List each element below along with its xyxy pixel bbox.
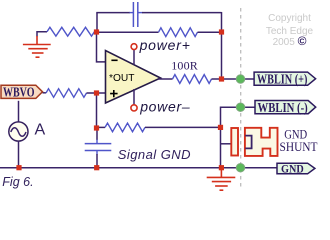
wire: AC source to rail — [18, 141, 20, 168]
wire: node E down to ground rail — [220, 127, 222, 167]
svg-text:A: A — [35, 122, 46, 139]
wire: ground leg to R-gnd — [37, 31, 47, 37]
svg-text:Signal GND: Signal GND — [118, 147, 191, 162]
svg-text:100R: 100R — [171, 58, 198, 72]
resistor R-gnd zigzag (inverting input to ground) — [47, 27, 95, 36]
wire: node A to feedback resistor — [97, 31, 159, 33]
wire: feedback cap top horizontal left — [96, 12, 130, 14]
wire: feedback cap branch right vertical — [221, 12, 223, 32]
op-amp plus label — [110, 90, 118, 97]
wire: R-pwr to node E — [145, 126, 221, 128]
wire: cap C2 top lead — [96, 128, 98, 140]
op-amp minus label — [111, 59, 117, 61]
wire: op-amp output to 100R — [158, 78, 173, 80]
wire: R-in to non-inverting input — [87, 92, 107, 94]
junction node D (96.5,128) — [94, 125, 99, 130]
resistor R-feedback zigzag — [159, 28, 198, 37]
wire: feedback cap top horizontal right — [142, 12, 222, 14]
capacitor C2 plate top — [85, 143, 112, 145]
capacitor C2 plate bottom — [85, 150, 112, 152]
WBLIN (+) tag — [254, 72, 316, 85]
svg-text:WBVO: WBVO — [3, 85, 35, 100]
svg-text:WBLIN (+): WBLIN (+) — [257, 72, 308, 87]
WBLIN (-) tag — [255, 101, 316, 114]
GND tag — [277, 163, 315, 174]
AC source sine wave — [11, 128, 26, 137]
wire: feedback resistor to node B — [198, 31, 222, 33]
svg-text:power+: power+ — [139, 37, 191, 53]
junction rail-C2 (96.7,167.7) — [94, 165, 99, 170]
junction rail-gnd (221.4,167.7) — [219, 165, 224, 170]
ground symbol bottom-right — [207, 170, 236, 190]
wire: output node to WBLIN+ tag — [222, 78, 256, 80]
junction node E (220.5,127.4) — [218, 125, 223, 130]
svg-text:GND: GND — [281, 163, 304, 175]
svg-text:Fig 6.: Fig 6. — [2, 175, 33, 189]
shunt receptacle bracket — [245, 136, 251, 149]
svg-text:power–: power– — [139, 99, 190, 115]
connector dot GND — [236, 163, 245, 172]
wire: WBVO tag stub — [43, 92, 47, 94]
svg-text:WBLIN (-): WBLIN (-) — [258, 101, 308, 116]
wire: signal ground rail — [0, 167, 277, 169]
svg-text:*OUT: *OUT — [109, 72, 135, 84]
wire: node C down to node D — [96, 93, 98, 128]
connector dot WBLIN- — [236, 103, 245, 112]
junction node C (96.5,93) — [94, 90, 99, 95]
wire: cap C1 blue lead right — [138, 12, 143, 14]
shunt left pin P1 — [231, 128, 238, 156]
capacitor C1 plate left — [132, 2, 134, 27]
resistor R-pwr zigzag — [105, 123, 145, 132]
power+ terminal circle — [131, 44, 137, 50]
svg-text:SHUNT: SHUNT — [280, 139, 318, 154]
wire: R-gnd to node A — [95, 31, 97, 33]
junction node B (221.5,32) — [219, 29, 224, 34]
resistor 100R zigzag — [173, 75, 212, 84]
AC source V1 circle — [9, 122, 28, 141]
svg-text:Copyright: Copyright — [268, 13, 311, 24]
wire: node A down to inverting input — [97, 32, 107, 62]
WBVO tag — [1, 85, 43, 98]
shunt jumper body — [245, 128, 278, 156]
wire: power- stub — [133, 89, 135, 105]
resistor R-in zigzag (from WBVO) — [46, 89, 87, 98]
dashed connector boundary line — [240, 8, 242, 188]
connector dot WBLIN+ — [236, 75, 245, 84]
power- terminal circle — [131, 105, 137, 111]
wire: branch to shunt pin — [221, 143, 232, 145]
wire: WBVO tag down to AC source — [18, 101, 20, 122]
op-amp U1 body — [106, 51, 161, 104]
junction node A (96.5,32) — [94, 29, 99, 34]
wire: cap C1 blue lead left — [130, 12, 134, 14]
ground symbol top-left — [23, 36, 51, 57]
junction rail-AC (19,167.7) — [16, 165, 21, 170]
wire: feedback cap branch left vertical — [96, 13, 98, 33]
svg-text:2005 ©: 2005 © — [273, 34, 307, 48]
junction output node (221.5,79) — [219, 76, 224, 81]
wire: node B down to output node — [221, 32, 223, 79]
wire: power+ stub — [133, 49, 135, 64]
wire: R-pwr from node D — [97, 126, 106, 128]
wire: 100R to node B2 — [212, 78, 222, 80]
capacitor C1 plate right — [137, 2, 139, 27]
wire: node E up and right to WBLIN- tag — [221, 107, 257, 127]
wire: cap C2 bottom lead — [96, 151, 98, 155]
